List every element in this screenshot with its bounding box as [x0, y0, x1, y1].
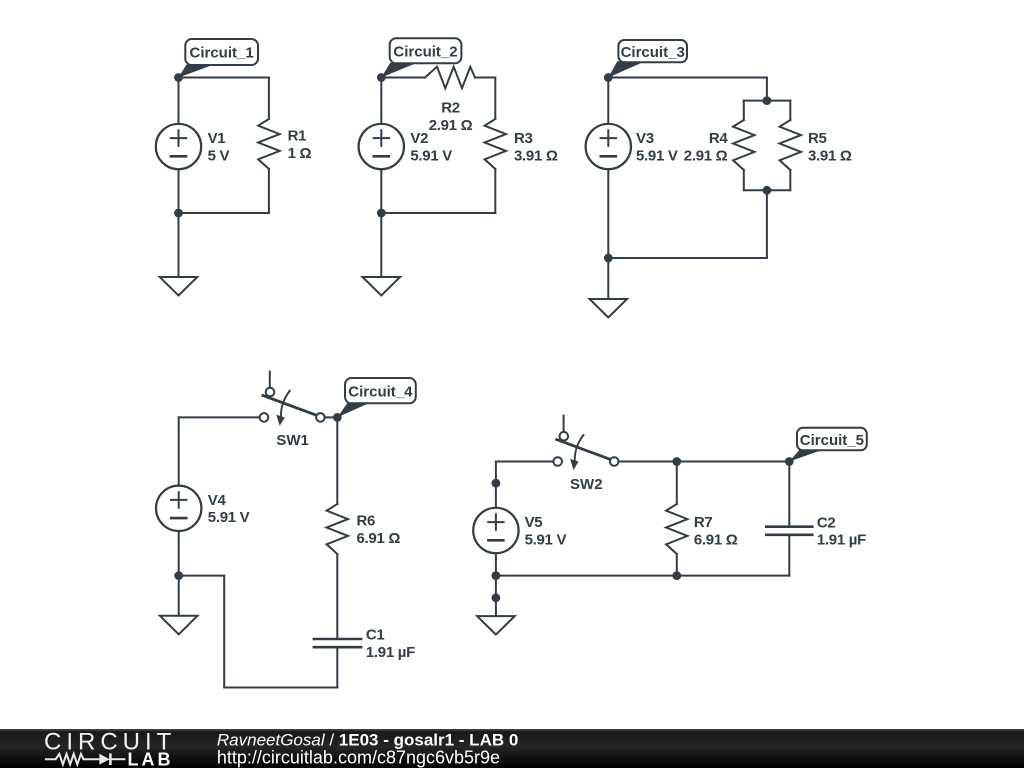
resistor R1 — [258, 78, 280, 214]
wire V5 top lead — [495, 462, 497, 508]
wire ground lead circuit 2 — [380, 213, 382, 277]
wire C1 bottom lead — [336, 647, 338, 687]
node junction parallel bottom — [763, 186, 772, 195]
svg-text:Circuit_1: Circuit_1 — [189, 45, 253, 62]
label R3 value — [514, 130, 558, 164]
svg-text:1 Ω: 1 Ω — [288, 145, 312, 162]
svg-text:R5: R5 — [808, 130, 827, 147]
svg-text:LAB: LAB — [128, 750, 174, 768]
label R4 value — [684, 130, 729, 164]
ground circuit 3 — [590, 299, 628, 318]
ground circuit 2 — [363, 277, 401, 296]
resistor R5 — [780, 101, 801, 191]
wire switch to R7 circuit 5 — [619, 461, 677, 463]
node junction switch circuit 4 — [333, 413, 342, 422]
resistor R7 — [666, 504, 687, 554]
svg-text:R4: R4 — [709, 130, 729, 147]
svg-text:6.91 Ω: 6.91 Ω — [357, 530, 401, 547]
node junction parallel top — [763, 96, 772, 105]
svg-text:C2: C2 — [817, 514, 836, 531]
wire V4 top lead — [178, 417, 180, 485]
label C1 value — [366, 627, 415, 661]
wire R6 top lead — [336, 417, 338, 504]
wire R6 to C1 — [336, 554, 338, 639]
node junction bottom circuit 3 — [604, 254, 613, 263]
node junction C2 top — [785, 457, 794, 466]
voltage source V3 — [586, 124, 631, 169]
wire V2 top lead — [380, 78, 382, 125]
resistor R6 — [327, 504, 348, 554]
svg-text:5.91 V: 5.91 V — [208, 509, 250, 526]
ground circuit 4 — [160, 616, 198, 635]
wire top rail circuit 1 — [179, 77, 269, 79]
capacitor C2 — [766, 527, 812, 535]
voltage source V5 — [473, 508, 518, 553]
wire ground lead circuit 3 — [607, 258, 609, 299]
wire bottom rail circuit 3 — [608, 257, 767, 259]
label R2 value — [429, 100, 473, 134]
wire bottom rail circuit 1 — [179, 212, 269, 214]
wire return branch bottom circuit 4 — [224, 687, 337, 689]
label V3 value — [636, 130, 678, 164]
ground circuit 1 — [160, 277, 198, 296]
node junction top circuit 1 — [174, 73, 183, 82]
svg-text:V2: V2 — [410, 130, 428, 147]
wire parallel bottom bar — [744, 189, 791, 191]
resistor R3 — [485, 78, 506, 214]
node junction R7 bottom — [672, 571, 681, 580]
wire switch feed circuit 4 — [179, 416, 260, 418]
svg-text:V3: V3 — [636, 130, 654, 147]
svg-text:5.91 V: 5.91 V — [410, 147, 452, 164]
svg-text:5.91 V: 5.91 V — [525, 531, 567, 548]
label R1 value — [288, 128, 312, 162]
wire V3 bottom lead — [607, 169, 609, 258]
wire bottom rail circuit 2 — [381, 212, 495, 214]
svg-text:6.91 Ω: 6.91 Ω — [694, 531, 738, 548]
CircuitLab logo wordmark — [44, 729, 176, 756]
voltage source V4 — [156, 486, 201, 531]
node junction ground circuit 5 — [492, 593, 501, 602]
wire R7 bottom lead — [676, 554, 678, 576]
wire parallel feed — [766, 78, 768, 101]
wire switch to node circuit 4 — [325, 416, 338, 418]
svg-text:R6: R6 — [357, 513, 376, 530]
wire parallel top bar — [744, 100, 791, 102]
svg-text:5 V: 5 V — [208, 147, 230, 164]
svg-text:R7: R7 — [694, 514, 713, 531]
svg-text:3.91 Ω: 3.91 Ω — [808, 147, 852, 164]
ground circuit 5 — [477, 616, 515, 635]
wire switch feed circuit 5 — [496, 461, 553, 463]
wire bottom rail circuit 5 — [496, 575, 789, 577]
label R7 value — [694, 514, 738, 548]
node junction V5 bottom — [492, 571, 501, 580]
svg-text:1.91 µF: 1.91 µF — [817, 532, 866, 549]
wire ground lead circuit 4 — [178, 576, 180, 616]
wire top rail right circuit 2 — [475, 77, 495, 79]
wire V5 bottom lead — [495, 553, 497, 575]
svg-text:2.91 Ω: 2.91 Ω — [684, 147, 728, 164]
svg-text:SW2: SW2 — [570, 476, 603, 493]
node junction R7 top — [672, 457, 681, 466]
wire V1 bottom lead — [178, 169, 180, 213]
svg-text:SW1: SW1 — [276, 432, 309, 449]
wire ground lead circuit 1 — [178, 213, 180, 277]
svg-text:http://circuitlab.com/c87ngc6v: http://circuitlab.com/c87ngc6vb5r9e — [217, 748, 500, 768]
wire top rail circuit 3 — [608, 77, 767, 79]
node junction bottom circuit 2 — [377, 209, 386, 218]
node junction top circuit 2 — [377, 73, 386, 82]
svg-text:5.91 V: 5.91 V — [636, 147, 678, 164]
svg-text:R1: R1 — [288, 128, 307, 145]
svg-text:C1: C1 — [366, 627, 385, 644]
wire R7 to C2 rail — [677, 461, 790, 463]
resistor R4 — [733, 101, 754, 191]
wire V2 bottom lead — [380, 169, 382, 213]
wire ground lead circuit 5 — [495, 576, 497, 617]
svg-text:Circuit_3: Circuit_3 — [621, 44, 685, 61]
wire C2 top lead — [788, 462, 790, 527]
label V1 value — [208, 130, 230, 164]
node junction V5 top — [492, 479, 501, 488]
resistor R2 — [425, 67, 475, 89]
node flag Circuit_4 — [337, 378, 416, 417]
svg-text:3.91 Ω: 3.91 Ω — [514, 147, 558, 164]
wire V3 top lead — [607, 78, 609, 125]
svg-text:2.91 Ω: 2.91 Ω — [429, 117, 473, 134]
svg-text:Circuit_4: Circuit_4 — [348, 383, 413, 400]
svg-text:R3: R3 — [514, 130, 533, 147]
switch SW2 — [553, 416, 618, 470]
label V5 value — [525, 514, 567, 548]
wire top rail left circuit 2 — [381, 77, 425, 79]
label V2 value — [410, 130, 452, 164]
wire return branch left circuit 4 — [223, 576, 225, 688]
node flag Circuit_1 — [179, 39, 259, 78]
svg-text:RavneetGosal / 1E03 - gosalr1: RavneetGosal / 1E03 - gosalr1 - LAB 0 — [217, 730, 518, 749]
svg-text:V4: V4 — [208, 492, 227, 509]
wire V4 bottom lead — [178, 531, 180, 576]
switch SW1 — [260, 372, 325, 426]
node junction ground circuit 4 — [174, 571, 183, 580]
svg-text:Circuit_2: Circuit_2 — [393, 43, 457, 60]
label R6 value — [357, 513, 401, 547]
label C2 value — [817, 514, 866, 548]
label V4 value — [208, 492, 250, 526]
wire return branch top circuit 4 — [179, 575, 225, 577]
node flag Circuit_5 — [789, 428, 867, 462]
CircuitLab logo resistor-diode glyph — [45, 753, 126, 765]
svg-text:V1: V1 — [208, 130, 226, 147]
node junction bottom circuit 1 — [174, 209, 183, 218]
footer bar — [0, 729, 1024, 768]
wire R7 top lead — [676, 462, 678, 505]
wire V1 top lead — [178, 78, 180, 125]
voltage source V1 — [156, 124, 201, 169]
node flag Circuit_3 — [608, 40, 687, 78]
svg-text:V5: V5 — [525, 514, 543, 531]
voltage source V2 — [359, 124, 404, 169]
svg-text:R2: R2 — [441, 100, 460, 117]
label R5 value — [808, 130, 852, 164]
node flag Circuit_2 — [381, 38, 461, 77]
wire C2 bottom lead — [788, 535, 790, 576]
svg-text:1.91 µF: 1.91 µF — [366, 644, 415, 661]
wire parallel return — [766, 190, 768, 258]
svg-text:Circuit_5: Circuit_5 — [800, 432, 864, 449]
node junction top circuit 3 — [604, 73, 613, 82]
capacitor C1 — [314, 639, 361, 647]
